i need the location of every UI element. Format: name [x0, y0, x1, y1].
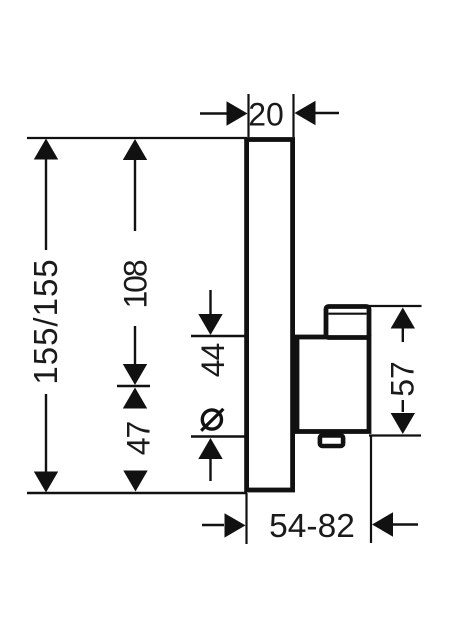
- dimension 57: [385, 308, 421, 435]
- dimension 47: [121, 388, 157, 492]
- dimension Ø44 bottom extension line: [191, 435, 247, 437]
- tick shared by 108 and 47: [117, 385, 150, 387]
- plate: [247, 140, 293, 491]
- handle body: [297, 337, 369, 432]
- svg-text:57: 57: [385, 361, 421, 397]
- handle step inner line: [329, 313, 367, 315]
- handle step: [326, 307, 369, 338]
- dimension 20 left extension line: [247, 94, 249, 137]
- dimension 108: [118, 139, 154, 385]
- top reference line: [27, 137, 247, 139]
- svg-text:47: 47: [121, 422, 157, 456]
- dimension 20: [200, 97, 339, 133]
- dimension 20 right extension line: [292, 94, 294, 137]
- svg-text:108: 108: [118, 260, 154, 308]
- svg-text:155/155: 155/155: [27, 258, 64, 384]
- dimension Ø44: [195, 290, 231, 481]
- handle tab: [320, 435, 343, 446]
- svg-text:44: 44: [195, 344, 231, 378]
- dimension 54-82: [202, 508, 418, 545]
- dimension Ø44 top extension line: [191, 335, 246, 337]
- dimension 57 bottom extension line: [369, 434, 421, 436]
- dimension 155/155: [27, 139, 64, 493]
- dimension 54-82 left extension line: [245, 493, 247, 544]
- bottom reference line: [27, 492, 247, 494]
- svg-text:54-82: 54-82: [269, 508, 355, 545]
- dimension 57 top extension line: [369, 305, 422, 307]
- dimension 54-82 right extension line: [370, 436, 372, 543]
- svg-text:20: 20: [248, 97, 284, 133]
